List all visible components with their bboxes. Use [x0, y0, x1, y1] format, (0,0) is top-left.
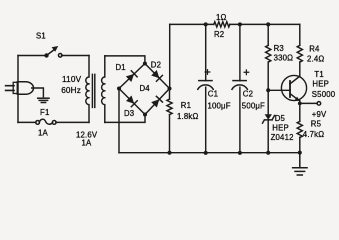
- node R5/ground/bottom rail: [298, 151, 302, 155]
- svg-text:S5000: S5000: [312, 90, 336, 99]
- svg-text:S1: S1: [36, 32, 46, 41]
- wire bottom rail: [119, 152, 300, 154]
- svg-text:100μF: 100μF: [208, 102, 231, 111]
- diode D3: [119, 89, 145, 115]
- wire secondary top to bridge: [105, 56, 145, 64]
- svg-text:R1: R1: [181, 101, 191, 110]
- ground (plug): [38, 98, 49, 102]
- wire emitter down: [299, 101, 301, 122]
- svg-text:+9V: +9V: [312, 110, 327, 119]
- transistor T1: [281, 75, 306, 101]
- node top rail / C1: [204, 22, 208, 26]
- wire bottom rail left segment: [18, 121, 36, 123]
- svg-text:60Hz: 60Hz: [61, 86, 81, 95]
- svg-text:T1: T1: [314, 70, 323, 79]
- svg-text:4.7kΩ: 4.7kΩ: [303, 130, 324, 139]
- wire left vertical of AC loop: [17, 56, 19, 123]
- svg-text:F1: F1: [40, 108, 49, 117]
- node base junction: [266, 88, 270, 92]
- wire top rail: [170, 23, 300, 25]
- svg-text:D1: D1: [116, 63, 126, 72]
- svg-text:D2: D2: [151, 60, 161, 69]
- node R1/bottom rail: [168, 151, 172, 155]
- node C2/bottom rail: [238, 151, 242, 155]
- svg-text:110V: 110V: [62, 75, 82, 84]
- capacitor C1: [198, 24, 213, 153]
- svg-text:R4: R4: [309, 44, 320, 53]
- svg-text:500μF: 500μF: [242, 101, 265, 110]
- svg-text:HEP: HEP: [272, 123, 289, 132]
- zener diode D5: [263, 90, 275, 152]
- diode D1: [119, 64, 145, 89]
- node bridge right: [168, 87, 172, 91]
- svg-text:Z0412: Z0412: [271, 133, 294, 142]
- node C1/bottom rail: [204, 151, 208, 155]
- wire bottom rail right segment: [56, 121, 89, 123]
- wire base lead: [268, 89, 290, 91]
- wire plug to ground: [32, 88, 44, 97]
- AC plug body: [13, 82, 17, 93]
- node D5/bottom rail: [266, 151, 270, 155]
- node top rail / R3: [266, 22, 270, 26]
- AC plug prongs: [6, 86, 14, 91]
- svg-text:C1: C1: [208, 90, 218, 99]
- fuse F1: [36, 119, 56, 124]
- transformer T secondary winding: [102, 56, 105, 123]
- transformer T primary winding: [86, 56, 89, 123]
- capacitor C2: [232, 24, 249, 153]
- node bridge left: [117, 87, 121, 91]
- node bridge bottom: [143, 113, 147, 117]
- svg-text:C2: C2: [243, 89, 253, 98]
- wire to output terminal: [300, 102, 317, 104]
- wire bridge right corner up to top rail: [169, 24, 171, 88]
- wire top rail of AC loop: [18, 55, 89, 57]
- svg-text:2.4Ω: 2.4Ω: [307, 54, 324, 63]
- resistor R5: [297, 121, 302, 152]
- node emitter / output: [298, 102, 302, 106]
- transformer core: [92, 74, 94, 107]
- wire secondary bottom to bridge: [105, 115, 145, 123]
- svg-text:1A: 1A: [82, 138, 93, 147]
- node bridge top: [143, 62, 147, 66]
- svg-text:D4: D4: [140, 84, 151, 93]
- svg-text:1A: 1A: [38, 128, 49, 137]
- svg-text:D5: D5: [275, 114, 286, 123]
- node top rail / C2: [238, 22, 242, 26]
- svg-text:HEP: HEP: [312, 79, 329, 88]
- svg-text:R2: R2: [214, 30, 224, 39]
- svg-text:D3: D3: [124, 109, 134, 118]
- resistor R4: [297, 24, 302, 76]
- ground (output): [293, 153, 307, 175]
- resistor R1: [167, 89, 172, 153]
- svg-text:R5: R5: [311, 119, 322, 128]
- output terminal: [317, 102, 321, 106]
- svg-text:330Ω: 330Ω: [274, 54, 294, 63]
- svg-text:1Ω: 1Ω: [216, 13, 227, 22]
- svg-text:1.8kΩ: 1.8kΩ: [177, 112, 198, 121]
- resistor R3: [266, 24, 271, 90]
- resistor R2: [214, 22, 230, 27]
- wire bridge left corner down to bottom rail: [118, 89, 120, 153]
- svg-text:R3: R3: [274, 44, 284, 53]
- diode D2: [145, 64, 170, 89]
- switch S1: [44, 46, 62, 58]
- diode D4: [145, 89, 170, 115]
